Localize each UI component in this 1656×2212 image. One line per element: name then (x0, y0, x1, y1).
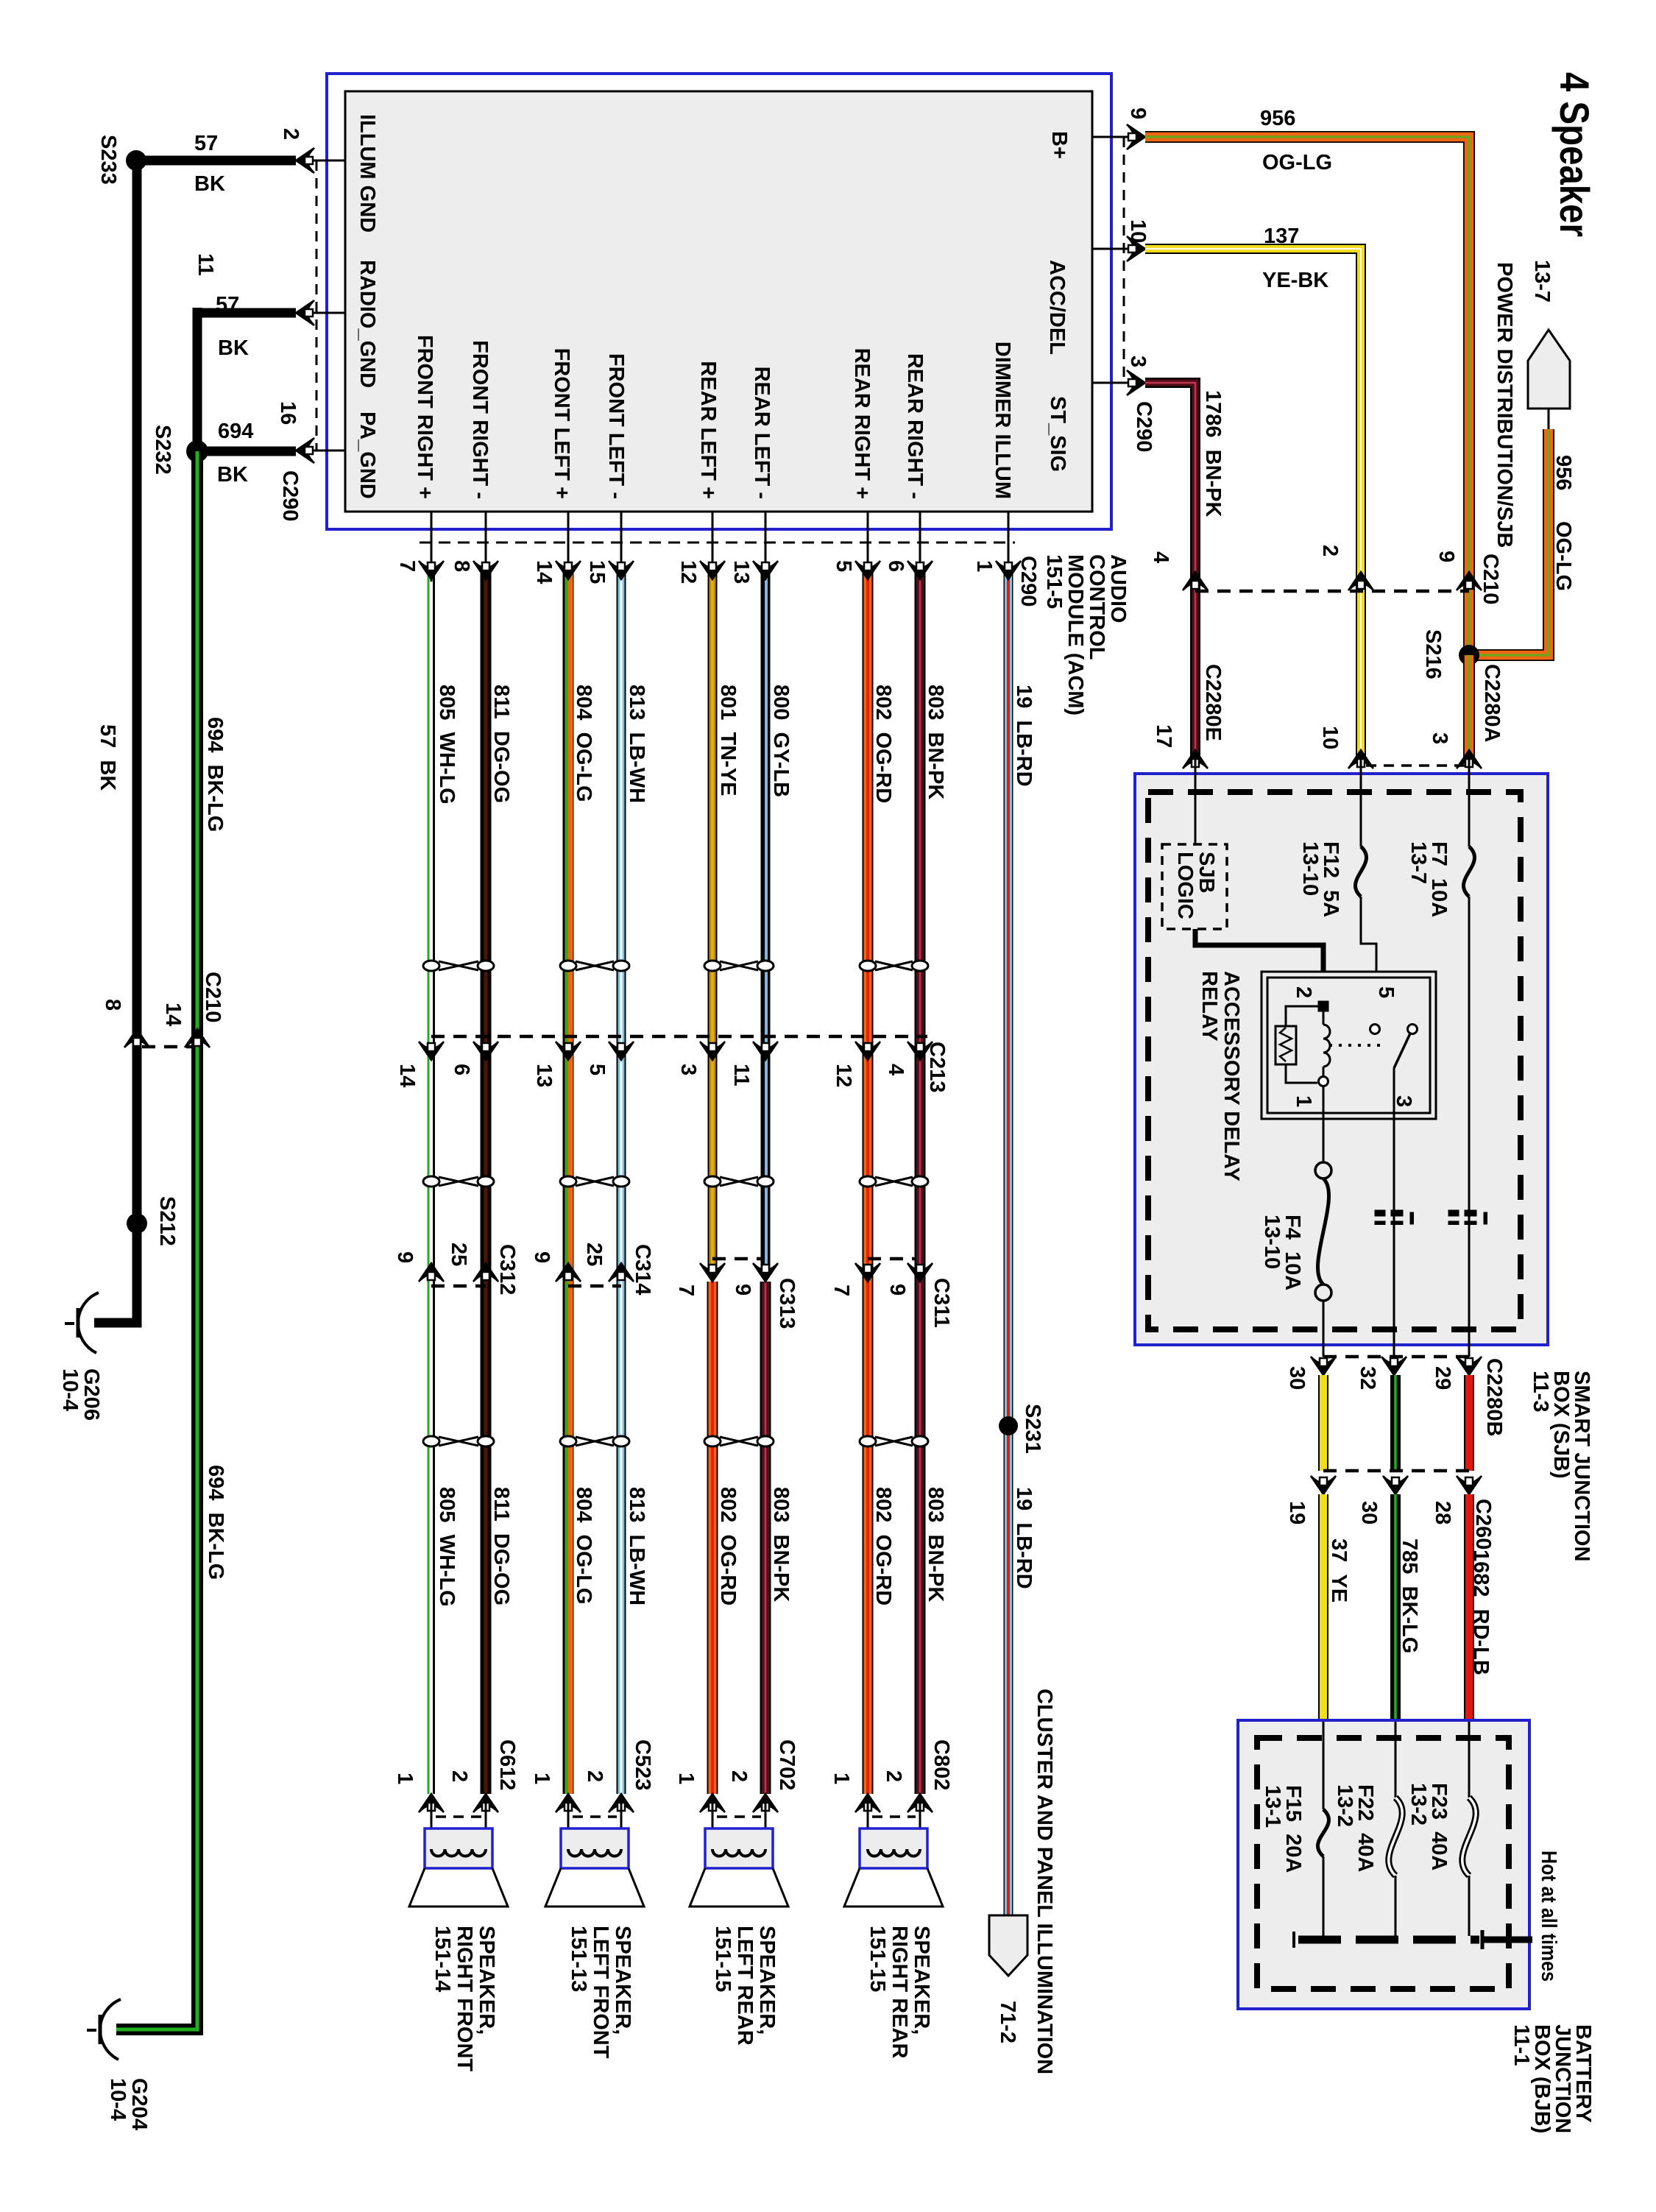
wire 57 BK from S233 to ACM pin 2 (136, 156, 296, 166)
pin 16 arrow (296, 438, 314, 463)
svg-text:REAR LEFT +: REAR LEFT + (696, 361, 720, 499)
speaker body C702 (705, 1828, 773, 1868)
svg-text:C2280E: C2280E (1201, 664, 1225, 741)
wire 37 YE upper segment (1318, 1375, 1328, 1471)
pin 30 arrow at C2280B (1311, 1357, 1336, 1375)
svg-text:57 BK: 57 BK (96, 724, 119, 791)
pin 5 arrow at C290 (855, 561, 880, 579)
speaker voice coil C612 (431, 1849, 486, 1856)
ACM right pin stub pin 10 ACC/DEL (1092, 248, 1131, 250)
svg-text:C312: C312 (495, 1244, 519, 1295)
speaker cone C702 (690, 1868, 788, 1907)
ground G206 symbol (78, 1293, 99, 1353)
fuse F22 40A (1389, 1798, 1402, 1876)
svg-text:137: 137 (1264, 225, 1299, 248)
power distribution pentagon symbol (1528, 330, 1570, 409)
accessory delay relay outer box (1262, 972, 1436, 1119)
connector C702 dashed line (717, 1815, 761, 1818)
speaker connector C523 pin 1 arrow (556, 1794, 581, 1812)
svg-text:6: 6 (884, 560, 907, 572)
relay switch arm (1394, 1033, 1410, 1068)
lead from C2280A pin 3 to fuse F7 (1468, 760, 1471, 847)
svg-text:29: 29 (1431, 1366, 1454, 1390)
svg-text:2: 2 (583, 1770, 606, 1782)
speaker pin lead wires C802 (867, 1802, 869, 1849)
svg-text:C260: C260 (1471, 1499, 1495, 1550)
svg-text:9: 9 (530, 1251, 553, 1263)
speaker connector C702 pin 1 arrow (700, 1794, 725, 1812)
wire 802 OG-RD col7 (863, 567, 874, 1794)
svg-text:785 BK-LG: 785 BK-LG (1398, 1538, 1421, 1653)
C210 arrow on green wire (185, 1029, 210, 1047)
speaker cone C802 (844, 1868, 943, 1907)
pin 15 arrow at C290 (609, 561, 634, 579)
ACM bottom pin stub col8 (919, 512, 921, 582)
bus break symbol on F7 lead (1448, 1210, 1459, 1216)
svg-text:804 OG-LG: 804 OG-LG (572, 1487, 595, 1605)
connector C290 dashed line left side (316, 160, 318, 450)
svg-text:3: 3 (1428, 732, 1451, 744)
wire 956 OG-LG from S216 to SJB (1463, 655, 1475, 760)
speaker pin lead wires C523 (567, 1802, 570, 1849)
pin 3 arrow (1127, 370, 1145, 395)
svg-text:14: 14 (395, 1064, 419, 1087)
svg-text:FRONT RIGHT +: FRONT RIGHT + (413, 335, 436, 499)
pin 6 arrow at C290 (907, 561, 933, 579)
svg-text:805 WH-LG: 805 WH-LG (435, 1487, 459, 1607)
pin 12 arrow at C213 (855, 1042, 880, 1060)
pin 9 arrow (1127, 124, 1145, 149)
svg-text:7: 7 (829, 1285, 853, 1296)
svg-text:POWER DISTRIBUTION/SJB: POWER DISTRIBUTION/SJB (1493, 262, 1516, 548)
svg-text:C213: C213 (925, 1042, 949, 1092)
lead from fuse F23 to bus (1468, 1876, 1471, 1936)
svg-text:1682 RD-LB: 1682 RD-LB (1469, 1550, 1493, 1675)
speaker connector C612 pin 1 arrow (419, 1794, 444, 1812)
dashed line between SJB top pins (1366, 764, 1465, 767)
svg-text:19: 19 (1285, 1501, 1309, 1524)
svg-text:25: 25 (447, 1243, 470, 1266)
pin 29 arrow at C2280B (1457, 1357, 1482, 1375)
speaker voice coil C523 (568, 1849, 621, 1856)
twisted pair symbol row2 cols 1179-1250 (875, 1177, 913, 1186)
svg-text:694 BK-LG: 694 BK-LG (204, 1465, 227, 1580)
svg-text:DIMMER ILLUM: DIMMER ILLUM (991, 342, 1014, 499)
pin 7 arrow at C313 (700, 1263, 725, 1282)
relay pin 2 terminal (1318, 1001, 1328, 1011)
ACM bottom pin stub col5 (712, 512, 714, 582)
pin 9 arrow at C312 (419, 1263, 444, 1282)
svg-text:C313: C313 (775, 1278, 799, 1329)
svg-text:CLUSTER AND PANEL ILLUMINATION: CLUSTER AND PANEL ILLUMINATION (1033, 1689, 1056, 2074)
lead from fuse F7 to C2280B pin 29 (1468, 897, 1471, 1357)
lead from pin 10 to fuse F12 (1360, 760, 1362, 847)
lead from C2280E pin 17 to SJB LOGIC (1195, 760, 1197, 844)
svg-text:BK: BK (217, 463, 248, 487)
twisted pair symbol row3 cols 1179-1250 (875, 1437, 913, 1446)
svg-text:C210: C210 (1479, 554, 1502, 604)
wire 1682 RD-LB upper segment (1464, 1375, 1474, 1471)
svg-text:14: 14 (161, 1003, 185, 1026)
pin 4 arrow at C210 (1183, 572, 1208, 590)
SJB LOGIC dashed box (1162, 844, 1227, 929)
svg-text:OG-LG: OG-LG (1551, 521, 1575, 591)
svg-text:9: 9 (1126, 107, 1150, 119)
connector C2280B dashed line (1323, 1355, 1469, 1359)
svg-text:37 YE: 37 YE (1327, 1538, 1351, 1603)
svg-text:C311: C311 (930, 1278, 953, 1328)
speaker connector C802 pin 2 arrow (907, 1794, 933, 1812)
svg-text:3: 3 (676, 1064, 700, 1075)
relay pin 5 terminal (1370, 1025, 1380, 1034)
svg-text:57: 57 (216, 293, 239, 317)
svg-text:YE-BK: YE-BK (1262, 269, 1328, 292)
lead from fuse F12 to relay pin 5 (1361, 897, 1376, 1027)
ACM bottom pin stub col2 (485, 512, 487, 582)
svg-text:803 BN-PK: 803 BN-PK (769, 1487, 793, 1602)
svg-text:2: 2 (1292, 986, 1315, 998)
connector C290 dashed line right side (1123, 137, 1125, 383)
wire 694 BK-LG vertical S232 to ground G204 (116, 451, 197, 2029)
lead from fuse F15 to bus (1323, 1856, 1325, 1936)
svg-text:1: 1 (972, 560, 996, 572)
wire 802 OG-RD col5 lower (707, 1282, 718, 1794)
splice S216 (1459, 645, 1479, 665)
svg-text:956: 956 (1260, 107, 1295, 130)
connector C314 dashed line (568, 1285, 621, 1288)
svg-text:17: 17 (1152, 724, 1175, 748)
svg-text:5: 5 (832, 560, 855, 572)
svg-text:C2280A: C2280A (1480, 664, 1504, 742)
svg-text:4 Speaker: 4 Speaker (1551, 72, 1598, 237)
svg-text:14: 14 (532, 560, 556, 584)
svg-text:2: 2 (1318, 545, 1342, 556)
connector C311 dashed line (868, 1257, 916, 1261)
pin 9 arrow at C314 (556, 1263, 581, 1282)
fuse F15 20A (1317, 1809, 1328, 1856)
wire 137 YE-BK from ACM pin 10 (1145, 249, 1361, 760)
connector C210 dashed line right (1195, 590, 1469, 593)
ACM bottom pin stub col4 (620, 512, 623, 582)
twisted pair symbol row2 cols 586-660 (439, 1177, 478, 1186)
wire 37 YE to BJB (1318, 1494, 1328, 1722)
svg-text:C314: C314 (631, 1244, 654, 1295)
twisted pair symbol row2 cols 772-844 (576, 1177, 614, 1186)
splice S233 (126, 150, 146, 171)
svg-text:956: 956 (1551, 455, 1575, 490)
svg-text:805 WH-LG: 805 WH-LG (435, 685, 459, 805)
svg-text:B+: B+ (1047, 131, 1071, 159)
pin 30 arrow at C260 (1383, 1476, 1408, 1494)
svg-text:8: 8 (450, 560, 473, 572)
svg-text:7: 7 (674, 1285, 698, 1296)
svg-text:1: 1 (829, 1773, 853, 1784)
wire 57 BK from corner to ACM pin 11 (197, 308, 296, 318)
pin 14 arrow at C290 (556, 561, 581, 579)
speaker body C802 (860, 1828, 927, 1868)
svg-text:FRONT LEFT +: FRONT LEFT + (550, 348, 573, 499)
svg-text:C702: C702 (775, 1739, 799, 1790)
speaker body C523 (561, 1828, 629, 1868)
wire 1786 BN-PK from ACM pin 3 (1145, 383, 1195, 760)
BJB bus bar left tick (1292, 1932, 1295, 1948)
ACM left pin stub pin 2 ILLUM GND (303, 160, 345, 162)
svg-text:30: 30 (1285, 1366, 1309, 1390)
pin 10 arrow (1127, 236, 1145, 261)
wire 785 BK-LG to BJB (1390, 1494, 1401, 1722)
svg-text:4: 4 (1149, 551, 1172, 563)
svg-text:15: 15 (585, 560, 609, 584)
svg-text:C523: C523 (631, 1739, 654, 1790)
pin 2 arrow (296, 148, 314, 173)
C210 arrow on black wire (124, 1029, 149, 1047)
twisted pair symbol row3 cols 772-844 (576, 1437, 614, 1446)
wire 813 LB-WH col4 (617, 567, 626, 1794)
ACM bottom pin stub col9 (1008, 512, 1010, 582)
speaker connector C702 pin 2 arrow (753, 1794, 778, 1812)
audio control module ACM inner box (345, 91, 1092, 512)
fuse F4 lead to C2280B pin 30 (1323, 1301, 1325, 1357)
BJB bus bar right terminal (1481, 1930, 1485, 1949)
ACM bottom pin stub col6 (765, 512, 767, 582)
lead from fuse F22 to bus (1395, 1876, 1397, 1936)
pin 25 arrow at C314 (609, 1263, 634, 1282)
svg-text:9: 9 (885, 1284, 909, 1296)
svg-text:811 DG-OG: 811 DG-OG (489, 685, 513, 803)
svg-text:2: 2 (882, 1770, 905, 1782)
hot at all times feed line (1482, 1937, 1532, 1943)
wire 800 GY-LB col6 upper (761, 567, 771, 1268)
wire 956 OG-LG from ACM pin 9 to S216 (1145, 137, 1469, 655)
svg-text:2: 2 (447, 1770, 471, 1782)
pin 6 arrow at C213 (473, 1042, 498, 1060)
svg-text:3: 3 (1126, 356, 1150, 367)
svg-text:REAR RIGHT +: REAR RIGHT + (850, 348, 874, 499)
fuse F4 top terminal (1315, 1162, 1331, 1179)
svg-text:694: 694 (218, 420, 253, 443)
pin 11 arrow (296, 300, 314, 325)
SJB inner dashed border (1148, 792, 1521, 1329)
pin 11 arrow at C213 (753, 1042, 778, 1060)
relay switch pivot terminal (1408, 1025, 1418, 1034)
pin 9 arrow at C210 (1457, 572, 1482, 590)
lead from 1682 RD-LB to fuse F23 (1468, 1722, 1471, 1798)
svg-text:FRONT RIGHT -: FRONT RIGHT - (468, 340, 492, 499)
splice S212 (127, 1213, 147, 1234)
svg-text:C612: C612 (495, 1739, 519, 1790)
pin 2 arrow at C210 (1348, 572, 1373, 590)
pin 8 arrow at C290 (473, 561, 498, 579)
fuse F12 5A (1355, 847, 1366, 897)
speaker connector C612 pin 2 arrow (473, 1794, 498, 1812)
speaker connector C523 pin 2 arrow (609, 1794, 634, 1812)
svg-text:800 GY-LB: 800 GY-LB (769, 685, 793, 797)
cluster and panel illumination connector pentagon 71-2 (989, 1915, 1027, 1976)
svg-text:30: 30 (1357, 1501, 1381, 1524)
svg-text:10: 10 (1126, 219, 1150, 243)
pin 4 arrow at C213 (907, 1042, 933, 1060)
svg-text:C290: C290 (278, 470, 302, 521)
svg-text:5: 5 (585, 1064, 609, 1075)
svg-text:1786 BN-PK: 1786 BN-PK (1201, 390, 1225, 517)
svg-text:694 BK-LG: 694 BK-LG (203, 717, 227, 832)
pin 12 arrow at C290 (700, 561, 725, 579)
connector C210 dashed line left (142, 1045, 191, 1049)
pin 1 arrow at C290 (996, 561, 1021, 579)
svg-text:7: 7 (395, 560, 419, 572)
relay pin 1 lead to fuse F4 (1323, 1086, 1325, 1162)
svg-text:FRONT LEFT -: FRONT LEFT - (604, 353, 628, 499)
svg-text:C290: C290 (1132, 401, 1156, 452)
wire 811 DG-OG col2 (481, 567, 492, 1794)
pin 3 arrow at C2280A (1457, 750, 1482, 768)
svg-text:BK: BK (218, 336, 249, 360)
wire 19 LB-RD col9 dimmer illum (1004, 567, 1013, 1915)
wire 694 BK from S232 to ACM pin 16 (197, 447, 296, 456)
pin 7 arrow at C311 (855, 1263, 880, 1282)
svg-text:C210: C210 (201, 972, 224, 1022)
relay pin 3 lead (1393, 1068, 1395, 1357)
svg-text:25: 25 (582, 1243, 606, 1266)
svg-text:57: 57 (194, 132, 218, 155)
svg-text:2: 2 (279, 128, 302, 140)
svg-text:811 DG-OG: 811 DG-OG (489, 1487, 513, 1605)
svg-text:803 BN-PK: 803 BN-PK (924, 685, 947, 799)
ground G204 symbol (100, 1999, 121, 2060)
svg-text:1: 1 (674, 1773, 698, 1784)
connector C313 dashed line (712, 1257, 762, 1261)
svg-text:1: 1 (1292, 1095, 1315, 1107)
connector C523 dashed line (573, 1815, 617, 1818)
pin 5 arrow at C213 (609, 1042, 634, 1060)
relay pin 1 terminal (1319, 1077, 1328, 1086)
svg-text:4: 4 (884, 1064, 907, 1075)
svg-text:BK: BK (194, 172, 225, 196)
pin 7 arrow at C290 (419, 561, 444, 579)
lead from 37 YE to fuse F15 (1323, 1722, 1325, 1809)
speaker cone C523 (545, 1868, 644, 1907)
svg-text:802 OG-RD: 802 OG-RD (871, 1487, 895, 1605)
pin 9 arrow at C313 (753, 1263, 778, 1282)
battery junction box BJB outer box (1238, 1720, 1529, 2009)
svg-text:PA_GND: PA_GND (355, 411, 379, 499)
svg-text:8: 8 (101, 999, 124, 1011)
pin 13 arrow at C213 (556, 1042, 581, 1060)
speaker voice coil C702 (712, 1849, 765, 1856)
svg-text:S233: S233 (96, 135, 120, 185)
svg-text:802 OG-RD: 802 OG-RD (716, 1487, 740, 1605)
svg-text:801 TN-YE: 801 TN-YE (716, 685, 740, 796)
pin 25 arrow at C312 (473, 1263, 498, 1282)
pin 32 arrow at C2280B (1381, 1357, 1406, 1375)
relay coil (1323, 1011, 1325, 1025)
BJB inner dashed border (1257, 1738, 1509, 1989)
wire 801 TN-YE col5 upper (708, 567, 718, 1268)
svg-text:11: 11 (729, 1064, 753, 1086)
svg-text:C802: C802 (930, 1739, 953, 1790)
pin 3 arrow at C213 (700, 1042, 725, 1060)
ACM right pin stub pin 9 B+ (1092, 136, 1131, 138)
pin 19 arrow at C260 (1311, 1476, 1336, 1494)
bus break symbol on relay pin 3 lead (1375, 1210, 1385, 1216)
svg-text:1: 1 (530, 1773, 553, 1784)
pin 13 arrow at C290 (753, 561, 778, 579)
twisted pair symbol row1 cols 1179-1250 (875, 961, 913, 970)
relay actuation dotted line (1329, 1044, 1385, 1047)
ACM bottom pin stub col3 (567, 512, 570, 582)
svg-text:32: 32 (1356, 1366, 1379, 1390)
ACM left pin stub pin 16 PA_GND (303, 450, 345, 452)
svg-text:28: 28 (1431, 1501, 1454, 1524)
svg-text:S231: S231 (1021, 1404, 1044, 1454)
wire 956 OG-LG from power distribution to S216 (1469, 429, 1549, 655)
svg-text:3: 3 (1392, 1095, 1415, 1107)
svg-text:10: 10 (1318, 726, 1342, 749)
svg-text:13: 13 (532, 1064, 556, 1087)
wire 785 BK-LG upper segment (1390, 1375, 1401, 1471)
svg-text:ST_SIG: ST_SIG (1046, 396, 1069, 472)
svg-text:804 OG-LG: 804 OG-LG (572, 685, 595, 802)
ACM left pin stub pin 11 RADIO_GND (303, 312, 345, 314)
svg-text:16: 16 (276, 401, 300, 425)
connector C260 dashed line (1323, 1469, 1469, 1473)
svg-text:803 BN-PK: 803 BN-PK (924, 1487, 947, 1602)
svg-text:S232: S232 (151, 425, 174, 475)
svg-text:OG-LG: OG-LG (1262, 151, 1332, 174)
pin 17 arrow at C2280E (1183, 750, 1208, 768)
svg-text:ILLUM GND: ILLUM GND (355, 114, 379, 233)
speaker connector C802 pin 1 arrow (855, 1794, 880, 1812)
svg-text:ACC/DEL: ACC/DEL (1045, 260, 1069, 355)
relay coil resistor (1286, 1006, 1318, 1026)
connector C290 dashed line bottom (420, 542, 1015, 544)
splice S232 (186, 440, 208, 462)
speaker body C612 (425, 1828, 492, 1868)
BJB bus bar dashed (1298, 1936, 1479, 1944)
accessory delay relay inner box (1267, 978, 1430, 1113)
svg-text:11: 11 (194, 253, 217, 276)
speaker voice coil C802 (868, 1849, 920, 1856)
pin 28 arrow at C260 (1457, 1476, 1482, 1494)
speaker pin lead wires C702 (712, 1802, 714, 1849)
connector C312 dashed line (431, 1285, 486, 1288)
svg-text:RADIO_GND: RADIO_GND (355, 260, 379, 388)
pin 9 arrow at C311 (907, 1263, 933, 1282)
svg-text:813 LB-WH: 813 LB-WH (625, 685, 648, 803)
ACM bottom pin stub col1 (431, 512, 433, 582)
lead from 785 BK-LG to fuse F22 (1395, 1722, 1397, 1798)
svg-text:5: 5 (1374, 986, 1398, 998)
svg-text:12: 12 (676, 560, 700, 584)
pentagon lead line (1548, 409, 1550, 429)
smart junction box SJB outer box (1135, 774, 1548, 1345)
twisted pair symbol row1 cols 772-844 (576, 961, 614, 970)
speaker pin lead wires C612 (431, 1802, 433, 1849)
speaker cone C612 (409, 1868, 508, 1907)
svg-text:S212: S212 (155, 1196, 179, 1246)
wire 1682 RD-LB to BJB (1464, 1494, 1474, 1722)
wire 804 OG-LG col3 (563, 567, 574, 1794)
svg-text:6: 6 (450, 1064, 473, 1075)
svg-text:9: 9 (1434, 551, 1458, 562)
wire 805 WH-LG col1 upper (428, 567, 430, 1794)
splice S231 on LB-RD wire (999, 1416, 1018, 1435)
svg-text:71-2: 71-2 (996, 2001, 1019, 2043)
fuse F4 bottom terminal (1315, 1285, 1331, 1301)
connector C802 dashed line (872, 1815, 916, 1818)
svg-text:C2280B: C2280B (1482, 1358, 1506, 1436)
pin 10 arrow at SJB (1348, 750, 1373, 768)
